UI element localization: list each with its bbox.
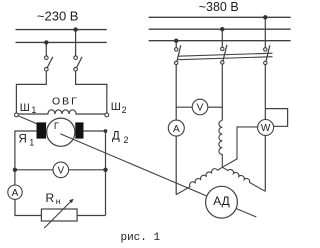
svg-text:Ш: Ш [20, 102, 30, 114]
armature loop left wire [15, 131, 37, 185]
junction dot pole B [220, 27, 224, 31]
junction dot pole C [263, 15, 267, 19]
shaft line segment 2 (through generator to AD motor) [60, 134, 207, 196]
wire switch pole2 to OVG right [76, 71, 107, 113]
svg-text:R: R [46, 191, 55, 205]
armature loop right wire [84, 131, 106, 216]
voltmeter V2 [192, 99, 208, 115]
voltmeter V1 [53, 162, 69, 178]
three-pole switch S2 pole A [175, 45, 181, 64]
ammeter A2 [168, 120, 184, 136]
wire tap right pole A [175, 41, 177, 48]
wire voltmeter branch right [208, 106, 223, 108]
wire voltmeter branch left [176, 106, 192, 108]
junction dot left-1 [44, 40, 48, 44]
junction dot V1 left [13, 168, 17, 172]
field winding OVG [18, 110, 105, 114]
switch linkage bar [178, 53, 273, 56]
svg-text:А: А [173, 124, 180, 135]
ammeter A1 [8, 185, 22, 199]
svg-text:V: V [197, 103, 204, 114]
rheostat Rn box [41, 209, 77, 221]
label Sh2 [111, 101, 127, 115]
wire tap left-1 [45, 42, 47, 56]
svg-text:АД: АД [213, 194, 230, 208]
switch S1 pole 1 [45, 56, 53, 71]
svg-text:~230 В: ~230 В [37, 9, 79, 24]
svg-text:1: 1 [31, 105, 36, 115]
switch S1 pole 2 [74, 56, 82, 71]
380V bus line 1 [149, 16, 291, 18]
three-pole switch S2 pole B [221, 45, 227, 64]
wire pole A down to ammeter [175, 65, 177, 121]
wire rheostat to right vertical [77, 215, 105, 217]
svg-text:~380 В: ~380 В [199, 0, 239, 14]
wire pole C down to wattmeter [264, 65, 266, 121]
wattmeter W [258, 120, 274, 136]
svg-text:н: н [56, 196, 61, 206]
label Ya1 [19, 134, 35, 148]
svg-text:рис. 1: рис. 1 [120, 232, 160, 244]
svg-text:2: 2 [124, 135, 129, 145]
wire tap left-2 [75, 30, 77, 56]
svg-text:1: 1 [29, 137, 34, 147]
junction dot left-2 [73, 27, 77, 31]
svg-text:ОВГ: ОВГ [52, 96, 79, 108]
voltmeter V1 wire [15, 169, 53, 171]
svg-text:W: W [261, 123, 271, 134]
wire pole B down [221, 64, 223, 120]
junction dot V1 right [103, 168, 107, 172]
wattmeter voltage wire to star point [222, 127, 257, 167]
wire below A2 [175, 136, 177, 195]
stator winding phase B [219, 121, 222, 168]
wire below A1 [15, 199, 41, 215]
generator G circle [47, 118, 75, 146]
svg-text:V: V [57, 166, 64, 177]
shaft line segment 3 (beyond AD motor) [237, 209, 257, 217]
wattmeter current-coil loop [265, 109, 287, 127]
terminal Sh2 [105, 113, 109, 117]
wire below W [264, 135, 266, 191]
svg-text:А: А [12, 188, 19, 199]
svg-text:Ш: Ш [111, 101, 121, 113]
wire tap right pole B [221, 29, 223, 47]
brush right [75, 122, 83, 138]
terminal Sh1 [15, 113, 19, 117]
stator winding phase C [222, 167, 265, 191]
three-pole switch S2 pole C [264, 45, 270, 64]
junction dot pole A [174, 39, 178, 43]
shaft line segment 1 (Sh1 to brush) [18, 116, 37, 124]
motor AD circle [206, 186, 238, 218]
junction dot armature corner [104, 129, 108, 133]
230V bus line 1 [16, 29, 107, 31]
label Rn [46, 191, 61, 206]
svg-text:Г: Г [54, 121, 59, 132]
label Sh1 [20, 102, 37, 115]
230V bus line 2 [16, 41, 107, 43]
brush left [37, 122, 47, 138]
label D2 [112, 131, 129, 146]
wire switch pole1 to OVG left [16, 71, 46, 113]
380V bus line 3 [149, 40, 291, 42]
380V bus line 2 [149, 28, 291, 30]
svg-text:2: 2 [122, 105, 127, 115]
rheostat arrow [44, 201, 71, 228]
svg-text:Я: Я [19, 134, 27, 146]
svg-text:Д: Д [112, 131, 120, 143]
wire tap right pole C [264, 17, 266, 47]
stator winding phase A [176, 167, 222, 194]
